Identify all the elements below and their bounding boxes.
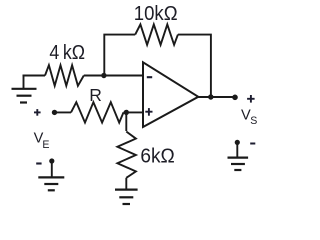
VE minus terminal dot [49,158,54,163]
ground G2 (below VE) [38,161,64,190]
wire feedback right and down to output [178,35,211,97]
node output junction dot [208,94,213,99]
wire ground to R1 [23,75,46,77]
svg-text:4 kΩ: 4 kΩ [49,42,85,64]
node A junction dot [101,73,106,78]
op-amp U1 triangle [143,62,198,127]
wire feedback up-left [104,35,135,76]
wire output [198,96,236,98]
ground G1 (left of 4k resistor) [12,76,37,103]
node B junction dot [124,110,129,115]
wire 6k to ground G3 [125,178,127,190]
resistor R zigzag [71,102,124,122]
wire node B down to 6k [125,112,127,131]
plus sign at Vs [247,95,255,103]
Vs minus terminal dot [235,140,240,145]
ground G3 (below 6k) [115,190,138,204]
VE plus terminal dot [52,110,57,115]
op-amp plus sign [145,108,152,116]
resistor 6kOhm vertical zigzag [117,132,135,178]
ground G4 (below Vs) [228,142,249,170]
svg-text:10kΩ: 10kΩ [134,2,178,25]
minus sign at VE ground [36,162,41,164]
plus sign at VE [34,109,41,116]
svg-text:S: S [250,115,257,127]
svg-text:E: E [42,139,49,151]
wire VE+ to resistor R [55,111,72,113]
wire R to op-amp non-inverting input [124,111,144,113]
wire R1 to op-amp inverting input [84,75,144,77]
resistor 10kOhm zigzag (feedback) [135,24,178,44]
svg-text:6kΩ: 6kΩ [140,145,174,168]
resistor 4kOhm zigzag [45,65,84,86]
output terminal dot [232,95,238,101]
op-amp minus sign [147,76,152,78]
svg-text:R: R [89,85,102,105]
minus sign at Vs ground [250,143,255,145]
